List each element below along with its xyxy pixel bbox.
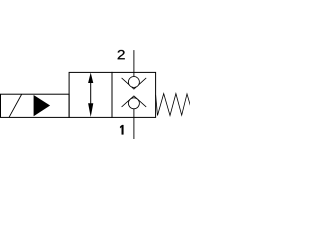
cartridge body box (right) (112, 72, 156, 117)
upper check seat V (122, 78, 147, 89)
upper check ball (128, 77, 139, 88)
port label 1 (120, 125, 123, 134)
port label 2 (118, 50, 125, 59)
lower check ball (128, 98, 139, 109)
port 1 line (bottom) (133, 109, 135, 139)
return spring (156, 94, 191, 116)
lower check seat V (122, 96, 147, 107)
solenoid diagonal stroke (9, 94, 22, 117)
port 2 line (top) (133, 50, 135, 77)
double-headed flow arrow (88, 73, 93, 117)
solenoid energize triangle (filled) (34, 95, 51, 116)
valve position box (middle) (69, 72, 112, 117)
solenoid actuator box (left) (1, 94, 70, 117)
